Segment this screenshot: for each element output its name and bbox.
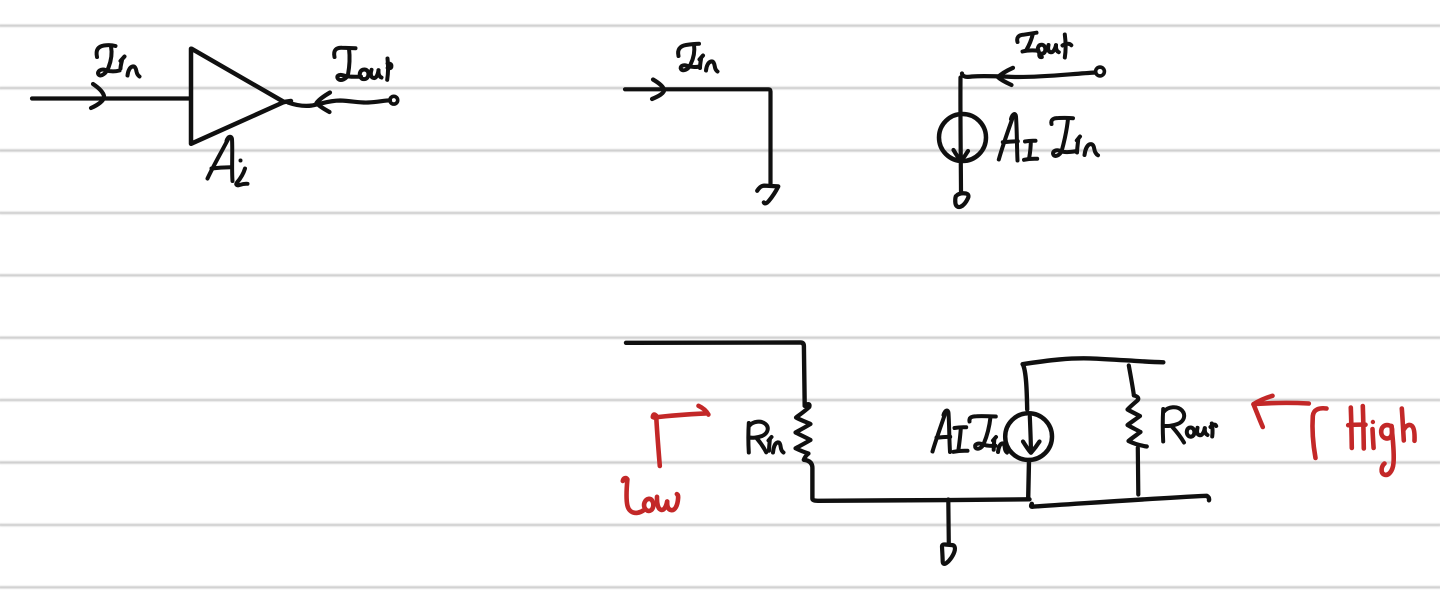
bottom rail right — [1031, 496, 1209, 507]
label I_in middle — [678, 44, 717, 72]
label A_i — [208, 137, 248, 186]
arrow Iout direction — [317, 93, 331, 113]
top rail bottom-right — [1023, 358, 1164, 364]
ground below current source — [955, 193, 968, 207]
label Low red — [623, 478, 678, 513]
wire below R_out — [1136, 448, 1141, 495]
label High red — [1348, 406, 1414, 475]
terminal circle Iout right — [1096, 67, 1105, 76]
arrow Iin direction — [91, 84, 104, 108]
ground stub bottom — [946, 500, 951, 545]
ground middle — [757, 186, 778, 204]
wire amplifier output — [288, 100, 390, 106]
wire Iout right — [962, 73, 1096, 78]
red bracket — [1313, 408, 1327, 458]
wire from top rail down to current source bottom — [1023, 365, 1027, 410]
terminal circle output — [390, 96, 398, 104]
ground symbol bottom — [942, 544, 955, 563]
wire vertical to current source — [958, 78, 963, 192]
wire bottom top-left with corner — [626, 342, 805, 405]
wire input to amplifier — [32, 96, 190, 100]
resistor R_out zigzag — [1128, 395, 1147, 446]
wire below R_in and bottom rail — [804, 460, 1030, 501]
wire Iin middle with corner — [625, 89, 771, 183]
label I_out — [334, 48, 392, 80]
current source arrow bottom — [1023, 417, 1040, 453]
resistor R_out stub top — [1129, 366, 1134, 396]
current source arrowhead — [954, 150, 969, 161]
arrow Iin middle direction — [652, 80, 664, 100]
label I_out right — [1017, 33, 1071, 58]
label R_in — [748, 422, 783, 453]
current source circle top right — [939, 114, 986, 161]
current source circle bottom — [1005, 413, 1052, 460]
label R_out — [1163, 407, 1216, 442]
label A_I I_in right — [999, 114, 1098, 160]
arrow Iout right direction — [998, 68, 1013, 85]
resistor R_in — [796, 404, 811, 460]
label A_I I_in bottom — [933, 411, 1008, 453]
label I_in — [97, 45, 140, 76]
red arrow low input — [653, 406, 709, 466]
red arrow high output — [1254, 396, 1309, 427]
op-amp triangle A_i — [191, 49, 291, 144]
wire below current source bottom — [1026, 460, 1031, 499]
